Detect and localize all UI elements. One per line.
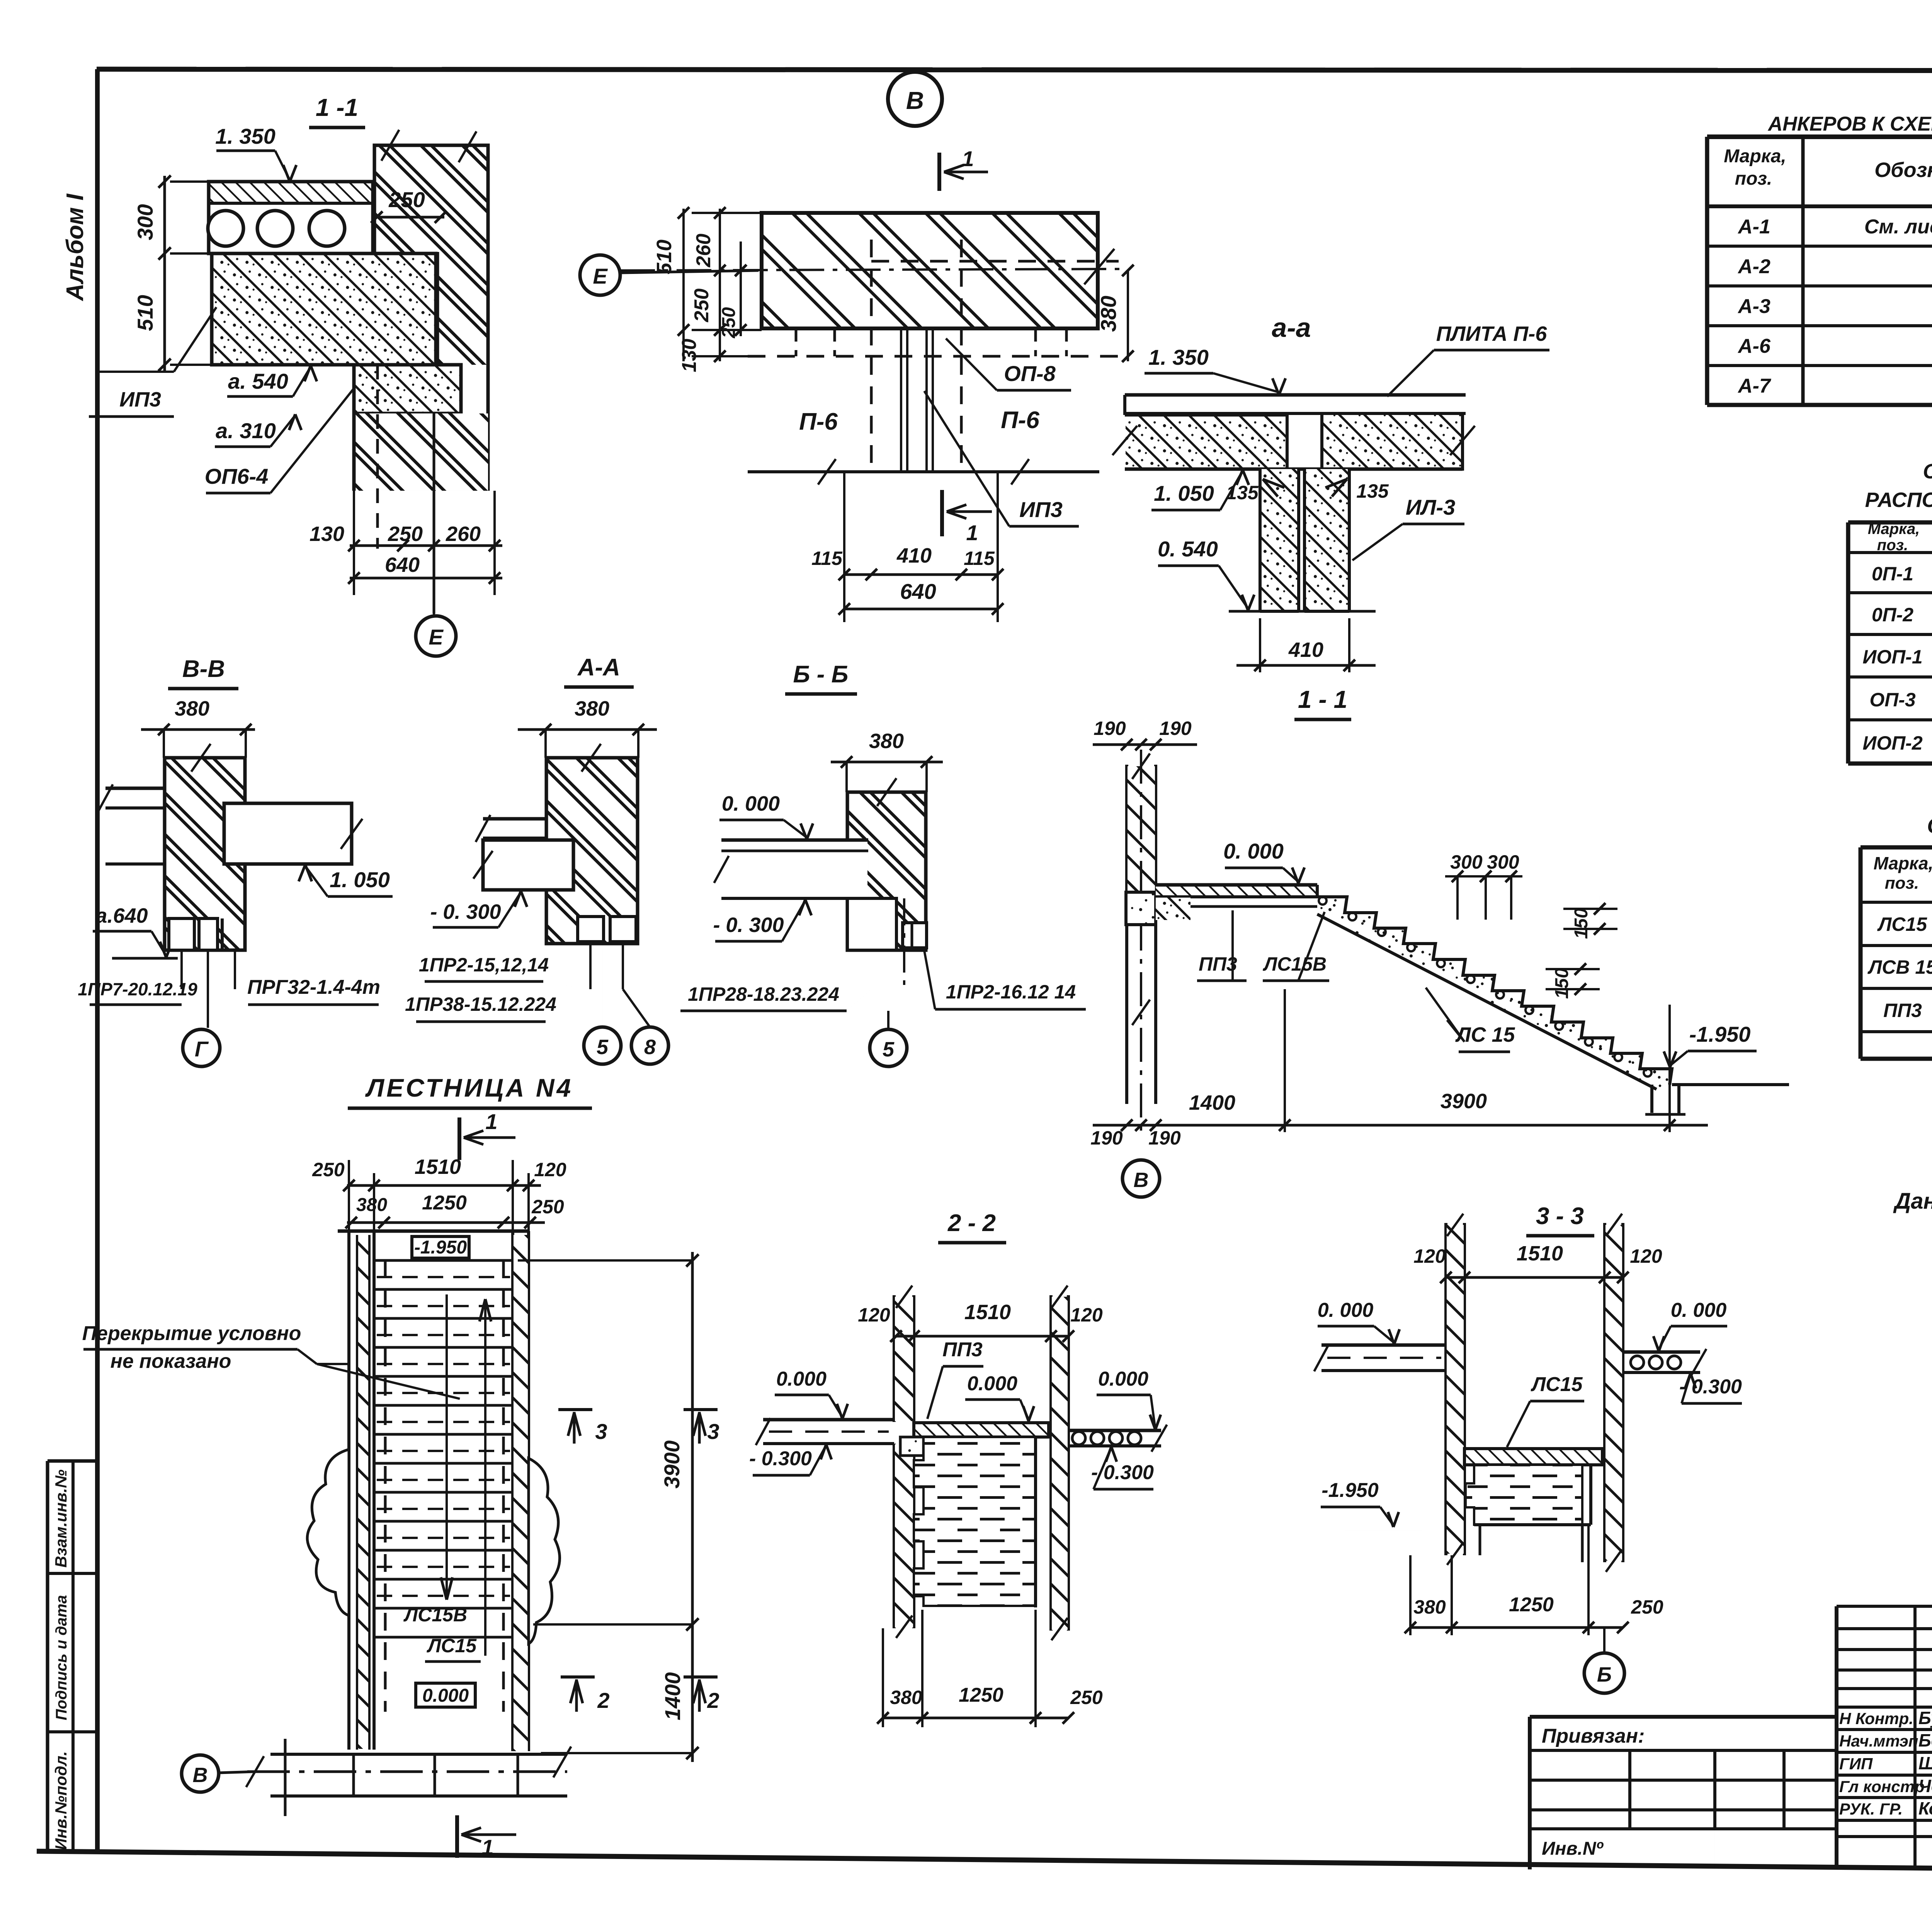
svg-text:250: 250 [690, 289, 713, 323]
svg-text:В: В [906, 87, 924, 114]
svg-text:260: 260 [446, 522, 481, 546]
svg-text:Данный лист читать совместн: Данный лист читать совместно с листами А… [1893, 1189, 1932, 1214]
svg-text:А-6: А-6 [1737, 335, 1771, 357]
svg-text:поз.: поз. [1877, 537, 1908, 554]
svg-text:Колушева: Колушева [1918, 1798, 1932, 1818]
svg-text:А-3: А-3 [1737, 295, 1770, 318]
svg-text:380: 380 [575, 697, 609, 720]
svg-text:0П-1: 0П-1 [1872, 563, 1913, 585]
svg-text:РАСПОЛОЖЕНИЯ ЭЛЕМЕНТОВ ПЕРЕК: РАСПОЛОЖЕНИЯ ЭЛЕМЕНТОВ ПЕРЕКРЫТИЯ И ПОКР… [1865, 488, 1932, 512]
svg-text:0. 000: 0. 000 [1318, 1299, 1374, 1321]
svg-text:380: 380 [356, 1195, 387, 1215]
svg-text:Бухарина: Бухарина [1918, 1708, 1932, 1728]
svg-text:260: 260 [692, 234, 715, 268]
svg-text:380: 380 [869, 730, 904, 753]
svg-text:ИЛ-3: ИЛ-3 [1406, 495, 1456, 519]
svg-text:ЛС15: ЛС15 [1877, 913, 1927, 935]
svg-text:250: 250 [531, 1196, 564, 1218]
svg-text:ЛСВ 15: ЛСВ 15 [1867, 956, 1932, 978]
svg-text:Б - Б: Б - Б [793, 661, 849, 688]
node B (uzel V) plan detail [888, 72, 942, 126]
svg-text:1. 050: 1. 050 [330, 867, 390, 892]
svg-text:П-6: П-6 [1001, 407, 1039, 434]
svg-text:8: 8 [644, 1036, 656, 1059]
svg-text:а.640: а.640 [95, 904, 148, 927]
svg-text:а. 310: а. 310 [216, 418, 276, 443]
svg-text:1ПР7-20.12.19: 1ПР7-20.12.19 [78, 979, 197, 999]
svg-text:ПРГ32-1.4-4т: ПРГ32-1.4-4т [247, 976, 380, 998]
svg-text:ИП3: ИП3 [119, 388, 161, 411]
svg-text:250: 250 [388, 522, 423, 546]
svg-text:ОП-8: ОП-8 [1004, 361, 1056, 386]
svg-text:1510: 1510 [415, 1155, 461, 1179]
svg-text:Нач.мтэп: Нач.мтэп [1839, 1732, 1918, 1750]
svg-text:1: 1 [966, 520, 978, 545]
svg-text:115: 115 [964, 548, 995, 569]
svg-text:поз.: поз. [1885, 874, 1919, 893]
svg-text:250: 250 [312, 1159, 345, 1180]
svg-text:120: 120 [1413, 1245, 1446, 1267]
svg-text:Взам.инв.№: Взам.инв.№ [52, 1469, 70, 1568]
svg-text:150: 150 [1552, 968, 1572, 999]
svg-text:Привязан:: Привязан: [1542, 1725, 1645, 1747]
svg-text:Н Контр.: Н Контр. [1839, 1709, 1913, 1728]
svg-text:640: 640 [900, 579, 936, 604]
svg-text:1400: 1400 [660, 1672, 685, 1721]
svg-text:поз.: поз. [1735, 168, 1772, 189]
svg-text:300: 300 [1450, 851, 1483, 873]
svg-text:1ПР2-15,12,14: 1ПР2-15,12,14 [419, 954, 549, 976]
svg-text:1: 1 [485, 1109, 497, 1134]
svg-text:250: 250 [1631, 1596, 1663, 1618]
svg-text:120: 120 [1630, 1245, 1662, 1267]
svg-text:135: 135 [1356, 480, 1389, 502]
svg-text:А-1: А-1 [1737, 216, 1770, 238]
svg-text:АНКЕРОВ К СХЕМЕ РАСПОЛОЖЕНИ: АНКЕРОВ К СХЕМЕ РАСПОЛОЖЕНИЯ ЭЛЕМЕНТОВ П… [1767, 113, 1932, 135]
svg-text:1510: 1510 [964, 1301, 1011, 1324]
svg-text:250: 250 [719, 307, 739, 338]
svg-text:- 0. 300: - 0. 300 [713, 913, 784, 937]
svg-text:380: 380 [890, 1687, 922, 1708]
svg-text:5: 5 [597, 1036, 609, 1059]
svg-text:СПЕЦИФИКАЦИЯ ЭЛЕМЕНТОВ К Л: СПЕЦИФИКАЦИЯ ЭЛЕМЕНТОВ К ЛЕСТНИЦЕ N4. [1927, 813, 1932, 838]
svg-text:1: 1 [481, 1835, 493, 1859]
svg-text:ЛС15: ЛС15 [1530, 1373, 1583, 1396]
svg-text:190: 190 [1090, 1127, 1123, 1149]
svg-text:а. 540: а. 540 [228, 369, 288, 393]
svg-text:а-а: а-а [1272, 313, 1311, 343]
svg-text:ИОП-2: ИОП-2 [1862, 732, 1922, 754]
svg-text:Альбом I: Альбом I [62, 193, 88, 302]
svg-text:3: 3 [707, 1419, 719, 1444]
svg-text:ИОП-1: ИОП-1 [1862, 646, 1922, 668]
svg-text:1510: 1510 [1517, 1242, 1563, 1265]
svg-text:0П-2: 0П-2 [1872, 604, 1913, 626]
svg-text:Марка,: Марка, [1868, 520, 1920, 537]
svg-text:135: 135 [1226, 482, 1259, 503]
svg-text:3: 3 [595, 1419, 607, 1444]
svg-text:В-В: В-В [182, 656, 225, 682]
svg-text:1ПР28-18.23.224: 1ПР28-18.23.224 [688, 983, 839, 1005]
svg-text:380: 380 [175, 697, 209, 720]
svg-text:Обозначение: Обозначение [1874, 158, 1932, 182]
svg-text:Е: Е [429, 625, 444, 649]
svg-text:1 -1: 1 -1 [316, 94, 358, 121]
svg-text:130: 130 [310, 522, 344, 546]
svg-text:Чернецкий: Чернецкий [1918, 1776, 1932, 1796]
svg-text:В: В [1134, 1168, 1149, 1192]
svg-text:190: 190 [1148, 1127, 1181, 1149]
svg-text:640: 640 [385, 553, 420, 577]
svg-text:190: 190 [1094, 718, 1126, 739]
svg-text:ЛЕСТНИЦА N4: ЛЕСТНИЦА N4 [365, 1073, 573, 1102]
svg-text:не показано: не показано [111, 1350, 231, 1372]
svg-text:ГИП: ГИП [1839, 1755, 1873, 1773]
svg-text:ЛС15: ЛС15 [427, 1635, 477, 1656]
svg-text:120: 120 [1070, 1304, 1103, 1326]
svg-text:В: В [193, 1764, 208, 1787]
svg-text:250: 250 [1070, 1687, 1103, 1708]
svg-text:ЛС15В: ЛС15В [403, 1604, 467, 1626]
svg-text:3900: 3900 [1440, 1090, 1487, 1113]
svg-text:510: 510 [653, 240, 676, 274]
svg-text:0. 000: 0. 000 [1671, 1299, 1727, 1321]
svg-text:130: 130 [678, 339, 701, 372]
svg-text:0. 000: 0. 000 [1223, 839, 1284, 863]
svg-text:ЛС 15: ЛС 15 [1455, 1023, 1515, 1046]
svg-text:300: 300 [133, 204, 157, 240]
svg-text:410: 410 [1288, 638, 1323, 662]
svg-text:0.000: 0.000 [776, 1368, 827, 1390]
svg-text:120: 120 [858, 1304, 890, 1326]
svg-text:3 - 3: 3 - 3 [1536, 1203, 1584, 1230]
svg-text:См. лист АС-82: См. лист АС-82 [1864, 216, 1932, 238]
svg-text:1: 1 [962, 146, 974, 171]
svg-text:1. 350: 1. 350 [1148, 345, 1209, 369]
svg-text:ПП3: ПП3 [942, 1338, 983, 1361]
svg-text:СПЕЦИФИКАЦИЯ ОПОРНЫХ ПОДУШЕК: СПЕЦИФИКАЦИЯ ОПОРНЫХ ПОДУШЕК К СХЕМАМ [1923, 460, 1932, 483]
svg-text:-1.950: -1.950 [1321, 1479, 1379, 1502]
svg-text:Гл констр: Гл констр [1839, 1777, 1925, 1796]
svg-text:1. 050: 1. 050 [1154, 481, 1214, 505]
svg-text:Инв.Nº: Инв.Nº [1542, 1838, 1604, 1859]
svg-text:410: 410 [896, 544, 932, 567]
svg-text:1ПР2-16.12 14: 1ПР2-16.12 14 [946, 981, 1076, 1003]
svg-text:0. 540: 0. 540 [1158, 537, 1218, 561]
svg-text:Перекрытие условно: Перекрытие условно [82, 1322, 301, 1345]
svg-text:250: 250 [388, 187, 425, 212]
svg-text:190: 190 [1159, 718, 1192, 739]
svg-text:1 - 1: 1 - 1 [1298, 685, 1347, 713]
svg-text:ПП3: ПП3 [1883, 1000, 1922, 1021]
svg-text:РУК. ГР.: РУК. ГР. [1839, 1800, 1903, 1818]
svg-text:Марка,: Марка, [1874, 853, 1932, 873]
svg-text:Г: Г [195, 1037, 209, 1061]
svg-text:- 0.300: - 0.300 [749, 1447, 812, 1470]
svg-text:0. 000: 0. 000 [722, 792, 780, 815]
svg-text:- 0. 300: - 0. 300 [430, 900, 501, 923]
svg-text:1250: 1250 [422, 1192, 467, 1214]
left margin boxes [46, 1461, 49, 1852]
svg-text:3900: 3900 [660, 1440, 684, 1489]
svg-text:Е: Е [593, 264, 608, 288]
svg-text:0.000: 0.000 [422, 1685, 469, 1706]
svg-text:0.000: 0.000 [1098, 1368, 1148, 1390]
svg-text:Марка,: Марка, [1724, 146, 1786, 167]
svg-text:Б: Б [1597, 1663, 1612, 1686]
svg-text:510: 510 [133, 295, 157, 331]
svg-text:5: 5 [883, 1038, 895, 1061]
svg-text:380: 380 [1096, 296, 1121, 332]
svg-text:П-6: П-6 [799, 408, 838, 435]
svg-text:ОП6-4: ОП6-4 [205, 464, 269, 488]
svg-text:2: 2 [597, 1688, 609, 1713]
svg-text:ОП-3: ОП-3 [1869, 689, 1916, 711]
svg-text:300: 300 [1487, 851, 1519, 873]
svg-text:Подпись и дата: Подпись и дата [53, 1595, 70, 1720]
svg-text:ИП3: ИП3 [1019, 497, 1063, 522]
svg-text:1. 350: 1. 350 [215, 124, 276, 148]
svg-text:ЛС15В: ЛС15В [1263, 953, 1327, 975]
svg-text:1250: 1250 [1509, 1594, 1554, 1616]
svg-text:2: 2 [707, 1688, 719, 1713]
svg-text:115: 115 [811, 548, 843, 569]
svg-text:1250: 1250 [959, 1684, 1003, 1706]
svg-text:-1.950: -1.950 [414, 1237, 467, 1258]
svg-text:Шелевиля: Шелевиля [1918, 1753, 1932, 1773]
svg-text:-1.950: -1.950 [1689, 1022, 1751, 1046]
title block [1837, 1605, 1932, 1608]
svg-text:380: 380 [1413, 1596, 1446, 1618]
svg-text:120: 120 [534, 1159, 566, 1180]
sheet frame [97, 69, 1932, 71]
svg-text:1ПР38-15.12.224: 1ПР38-15.12.224 [405, 993, 556, 1015]
svg-text:А-А: А-А [577, 654, 620, 681]
svg-text:А-2: А-2 [1737, 255, 1770, 278]
svg-text:А-7: А-7 [1737, 375, 1771, 397]
svg-text:150: 150 [1571, 908, 1592, 939]
svg-text:2 - 2: 2 - 2 [947, 1210, 996, 1236]
svg-text:1400: 1400 [1189, 1091, 1235, 1114]
svg-text:0.000: 0.000 [967, 1372, 1017, 1395]
svg-text:Инв.№подл.: Инв.№подл. [52, 1751, 70, 1850]
svg-text:ПЛИТА П-6: ПЛИТА П-6 [1436, 322, 1548, 345]
svg-text:Беганская: Беганская [1918, 1730, 1932, 1750]
